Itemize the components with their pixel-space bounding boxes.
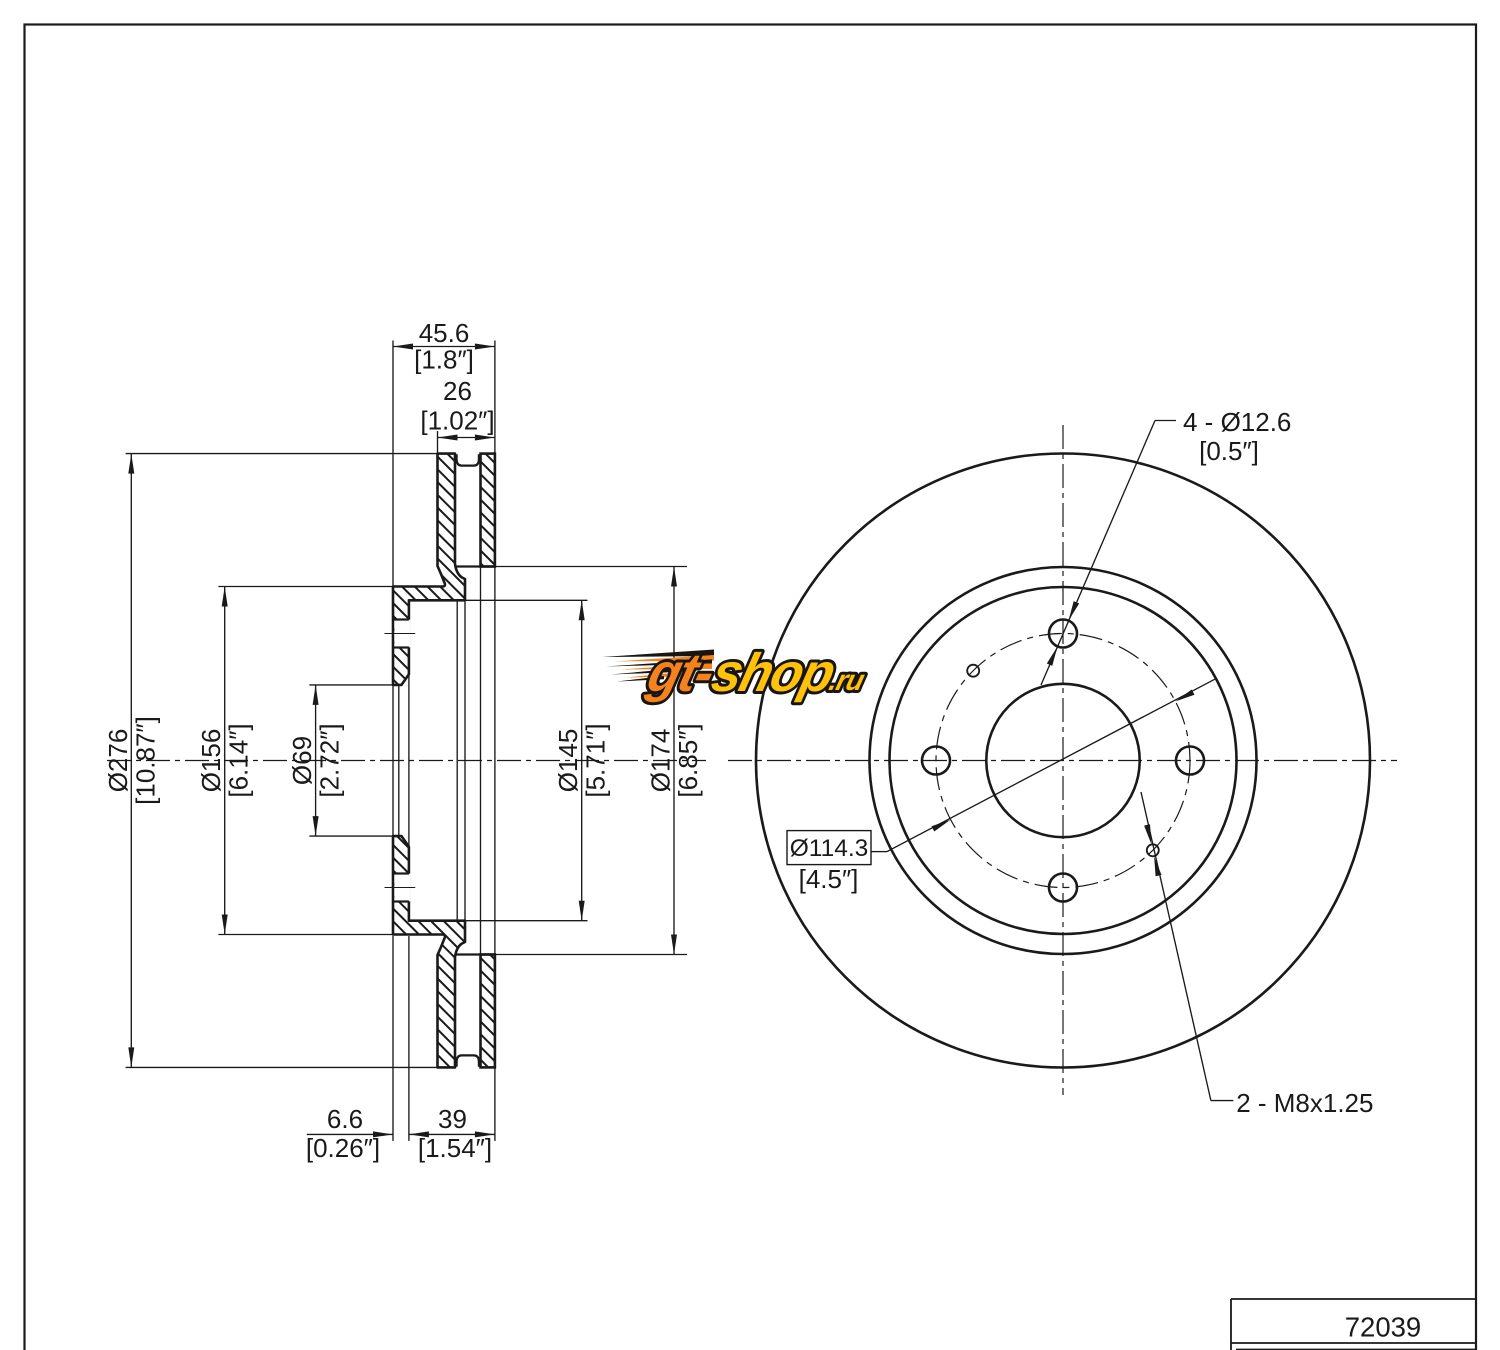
svg-text:6.6: 6.6 — [327, 1104, 363, 1134]
ext line 45.6/26 right — [494, 341, 496, 454]
title block — [1231, 1299, 1476, 1350]
outer face inner edge line — [494, 567, 496, 955]
svg-text:Ø174: Ø174 — [646, 729, 676, 793]
dimension D276 [10.87in] — [103, 454, 161, 1068]
service hole M8 (upper-left) — [967, 665, 979, 677]
ext line D145 top — [465, 599, 588, 601]
svg-text:26: 26 — [443, 376, 472, 406]
dimension 6.6 [0.26in] — [306, 1104, 393, 1163]
svg-text:[4.5″]: [4.5″] — [799, 864, 859, 894]
wheel bolt hole D12.6 (top) — [1049, 620, 1077, 648]
hat cup inner edge line — [456, 600, 458, 920]
svg-text:39: 39 — [438, 1104, 467, 1134]
rotor inner edge (lower) — [455, 953, 495, 955]
svg-text:[6.85″]: [6.85″] — [673, 723, 703, 797]
svg-text:shop: shop — [706, 643, 841, 703]
ext line 6.6 left — [392, 936, 394, 1141]
vent channel web (bottom) — [457, 1055, 479, 1066]
dimension D174 [6.85in] — [646, 567, 704, 955]
svg-text:Ø156: Ø156 — [196, 729, 226, 793]
inner plate back edge line — [480, 567, 482, 955]
wheel stud hole in hub flange — [385, 874, 416, 902]
ext line D174 top — [495, 566, 687, 568]
leader D114.3 — [871, 678, 1217, 851]
wheel stud hole in hub flange — [385, 620, 416, 648]
ext line D156 top — [218, 586, 393, 588]
svg-text:[1.8″]: [1.8″] — [414, 345, 474, 375]
friction band circle D174 — [870, 567, 1257, 954]
svg-text:[6.14″]: [6.14″] — [224, 723, 254, 797]
leader 2-M8x1.25 — [1141, 792, 1233, 1101]
wheel bolt hole D12.6 (left) — [922, 747, 950, 775]
svg-text:[0.5″]: [0.5″] — [1199, 436, 1259, 466]
bolt circle D114.3 (dashed) — [936, 634, 1190, 888]
disc outer circle D276 — [756, 454, 1370, 1068]
ext line 26 left — [437, 431, 439, 454]
ext line D276 top — [126, 453, 438, 455]
svg-text:Ø114.3: Ø114.3 — [790, 835, 869, 862]
hub back face silhouette line — [408, 674, 410, 846]
bore chamfer silhouette line — [398, 685, 400, 836]
rotor inner edge (upper) — [455, 565, 495, 567]
rotor right friction plate section (upper) — [481, 454, 495, 567]
wheel bolt hole D12.6 (right) — [1176, 747, 1204, 775]
dimension 39 [1.54in] — [409, 1104, 495, 1163]
ext line D69 top — [309, 684, 393, 686]
svg-text:Ø69: Ø69 — [287, 736, 317, 785]
svg-text:45.6: 45.6 — [419, 318, 470, 348]
ext line D156 bottom — [218, 934, 393, 936]
hat inner wall edge line — [464, 600, 466, 920]
gt-shop.ru watermark logo — [602, 643, 874, 703]
ext line D174 bottom — [495, 954, 687, 956]
svg-text:Ø145: Ø145 — [553, 729, 583, 793]
svg-text:[1.02″]: [1.02″] — [420, 406, 494, 436]
dimension D69 [2.72in] — [287, 685, 345, 836]
rotor hat and left plate section (upper half) — [393, 454, 465, 685]
hat flange circle D156 — [890, 587, 1237, 934]
svg-text:[0.26″]: [0.26″] — [306, 1133, 380, 1163]
ext line D276 bottom — [126, 1066, 438, 1068]
ext line D145 bottom — [465, 920, 588, 922]
front view horizontal centerline — [728, 760, 1397, 762]
dimension 45.6 [1.8in] — [393, 318, 495, 375]
dimension D156 [6.14in] — [196, 587, 254, 935]
rotor hat and left plate section (lower half) — [393, 836, 465, 1067]
ext line 39 right — [494, 1067, 496, 1141]
center bore circle D69 — [986, 684, 1139, 837]
label 4-D12.6 [0.5in] — [1183, 407, 1291, 466]
service hole M8 (lower-right) — [1147, 844, 1159, 856]
front view vertical centerline — [1062, 425, 1064, 1095]
svg-text:[2.72″]: [2.72″] — [315, 723, 345, 797]
bore face silhouette line — [392, 685, 394, 836]
ext line 39 left — [408, 936, 410, 1141]
dimension 26 [1.02in] — [420, 376, 495, 441]
leader 4-D12.6 — [1041, 421, 1176, 686]
label D114.3 box — [787, 831, 871, 865]
ext line 45.6 left — [392, 341, 394, 587]
svg-text:[5.71″]: [5.71″] — [581, 723, 611, 797]
rotor right friction plate section (lower) — [481, 955, 495, 1068]
svg-text:Ø276: Ø276 — [103, 729, 133, 793]
svg-text:72039: 72039 — [1345, 1312, 1421, 1343]
wheel bolt hole D12.6 (bottom) — [1049, 874, 1077, 902]
svg-text:2 - M8x1.25: 2 - M8x1.25 — [1236, 1088, 1373, 1118]
ext line D69 bottom — [309, 835, 393, 837]
svg-text:[10.87″]: [10.87″] — [130, 716, 160, 805]
vent channel web (top) — [457, 454, 479, 465]
svg-text:[1.54″]: [1.54″] — [418, 1133, 492, 1163]
svg-text:4 - Ø12.6: 4 - Ø12.6 — [1183, 407, 1291, 437]
section view centerline — [107, 760, 706, 762]
dimension D145 [5.71in] — [553, 600, 611, 920]
